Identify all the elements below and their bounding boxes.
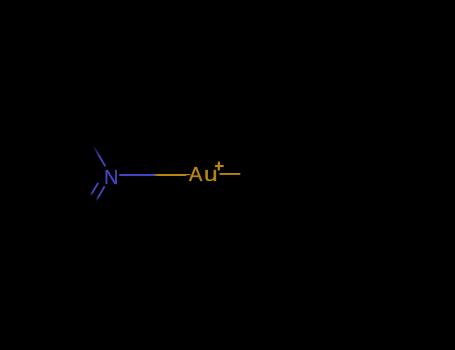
svg-text:N: N — [104, 167, 118, 189]
wire: pyridine C2-N single bond (blue half near N) — [93, 145, 106, 167]
wire: Au-C bond stub (goldenrod half near Au) — [220, 173, 241, 175]
wire: thin bond tail touching Au label — [185, 174, 191, 176]
plus charge on Au — [215, 162, 224, 171]
wire: N-Au coordinate bond (blue half / goldenrod half) — [119, 174, 186, 176]
svg-text:A: A — [189, 164, 203, 186]
wire: pyridine N=C6 double bond inner line — [90, 183, 98, 196]
wire: pyridine N=C6 double bond outer line — [96, 186, 105, 201]
